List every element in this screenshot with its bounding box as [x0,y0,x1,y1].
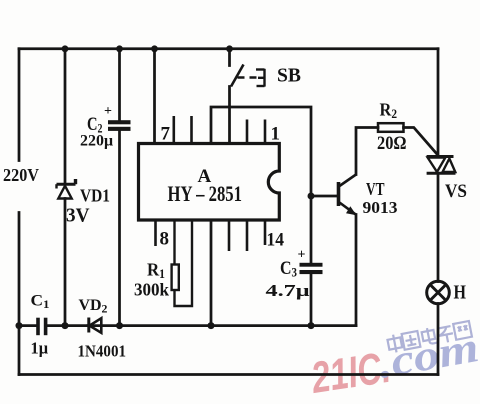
watermark chinese text [387,320,472,354]
svg-text:9013: 9013 [363,198,398,217]
wire triac to lamp [437,175,440,282]
svg-text:4.7μ: 4.7μ [266,281,311,300]
lamp H [427,281,450,304]
switch SB dashed link [238,76,259,78]
wire collector to R2 [356,128,378,175]
svg-text:+: + [298,248,306,263]
wire VD1 branch lower [64,199,67,326]
svg-text:1N4001: 1N4001 [78,342,127,361]
wire VD2 to emitter corner [88,324,356,327]
node dot base junction [308,193,315,200]
wire left rail upper segment [18,49,21,161]
wire C2 branch upper [118,49,121,121]
switch SB actuator [256,69,265,87]
svg-text:HY – 2851: HY – 2851 [168,181,243,206]
IC bottom pin stubs [156,220,266,251]
wire top rail [19,47,438,50]
zener diode VD1 [57,179,76,199]
wire SB branch upper [228,49,231,66]
svg-text:20Ω: 20Ω [377,133,407,154]
svg-text:3V: 3V [66,206,90,227]
svg-text:+: + [104,104,112,119]
node dot C2 top [116,45,123,52]
transistor Q1 VT base bar [337,182,341,206]
transistor emitter diagonal [340,203,356,215]
svg-text:VS: VS [445,181,467,202]
wire mid bottom line y=325.6 (left of C1) [19,324,36,327]
svg-text:7: 7 [161,124,171,145]
wire C2 branch lower [118,131,121,326]
wire C1 to VD1 node [48,324,89,327]
wire lamp to bottom rail [437,304,440,375]
svg-text:VT: VT [366,179,385,199]
switch SB lever [231,65,244,87]
wire rail to IC pin 7 (top-left pin) [153,49,156,144]
svg-text:VD1: VD1 [80,186,110,206]
svg-text:220μ: 220μ [80,133,113,150]
capacitor C2 plates [108,120,131,131]
svg-text:220V: 220V [3,165,39,185]
svg-text:SB: SB [277,66,301,87]
wire base horizontal [311,195,338,198]
diode VD2 [89,318,102,333]
node dot pin11 bottom [208,322,215,329]
node dot C3 bottom [308,322,315,329]
svg-text:14: 14 [267,230,285,251]
svg-text:1: 1 [271,124,281,145]
transistor emitter arrowhead [346,206,357,215]
svg-text:1μ: 1μ [31,339,49,358]
wire C3 lower lead [310,274,313,326]
node dot mid line far left [16,322,23,329]
svg-text:8: 8 [160,229,170,250]
wire emitter vertical [355,215,358,326]
transistor collector diagonal [340,175,357,187]
node dot SB top [226,45,233,52]
resistor R2 [378,123,404,132]
wire left rail lower segment [18,213,21,375]
IC top pin stubs [174,116,265,144]
wire R2 right lead to triac gate [404,128,437,154]
svg-text:300k: 300k [134,280,169,300]
wire SB branch lower to IC pin [228,87,231,144]
node dot C2 bottom [116,322,123,329]
wire right rail top (to triac) [437,49,440,156]
wire bottom rail [19,373,438,376]
wire pin11-bottom long drop [210,220,213,326]
wire pin4-top to transistor base net [211,107,311,263]
node dot VD1 top [62,45,69,52]
svg-text:H: H [454,282,467,304]
triac VS [427,157,456,174]
capacitor C1 plates [36,318,47,336]
node dot pin7 wire top [151,45,158,52]
capacitor C3 plates [300,263,323,274]
wire VD1 branch upper [64,49,67,183]
node dot VD1 bottom [62,322,69,329]
resistor R1 [172,220,192,306]
op-amp U1: IC A HY-2851 body [139,144,280,221]
